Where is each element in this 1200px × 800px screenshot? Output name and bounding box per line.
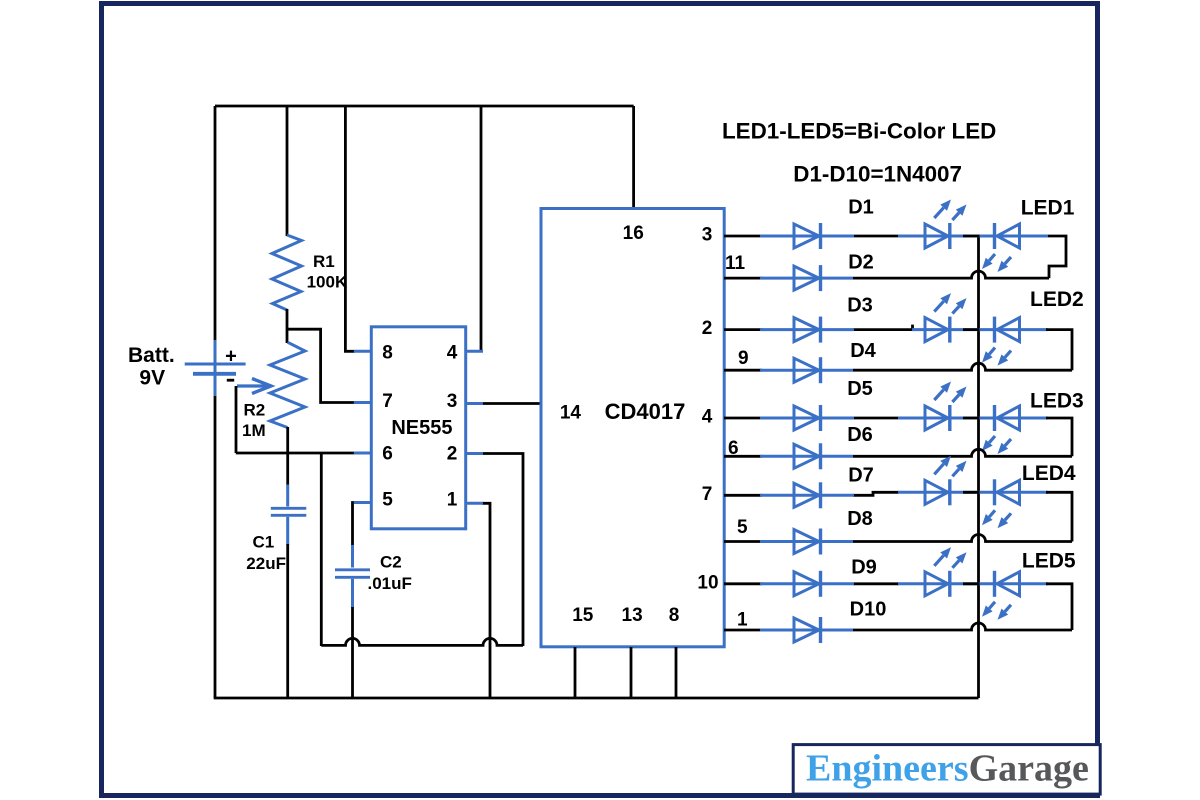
- diode D6: [794, 443, 821, 469]
- wire R2 bottom to C1: [286, 427, 289, 485]
- label R2 1M: [242, 401, 266, 441]
- svg-text:7: 7: [382, 391, 393, 412]
- svg-text:LED5: LED5: [1022, 550, 1076, 573]
- wire supply to CD4017 pin16: [632, 106, 635, 209]
- wire LED5 return loop: [1046, 584, 1072, 630]
- svg-text:22uF: 22uF: [246, 554, 286, 573]
- wire row pin 4 black segment at common line: [963, 417, 980, 420]
- wire row pin 11 with hop: [853, 271, 1049, 278]
- EngineersGarage logo: [793, 745, 1100, 795]
- svg-text:2: 2: [447, 444, 458, 465]
- wire CD4017 pin13 to ground: [630, 647, 633, 698]
- svg-text:3: 3: [447, 391, 458, 412]
- svg-text:D9: D9: [851, 557, 877, 579]
- svg-text:7: 7: [702, 484, 713, 505]
- wire node R1-R2 to NE555 pin7: [287, 329, 355, 402]
- NE555 pin stubs: [354, 351, 483, 503]
- wire NE555 pin3 to CD4017 pin14: [482, 402, 541, 405]
- svg-text:D1: D1: [848, 197, 874, 219]
- svg-text:D6: D6: [847, 424, 873, 446]
- wire row pin 4 blue segments: [760, 417, 1048, 420]
- label C1 22uF: [246, 533, 286, 574]
- svg-text:CD4017: CD4017: [605, 399, 686, 424]
- R2 wiper arrow: [237, 379, 271, 394]
- wire LED4 return loop: [1046, 492, 1072, 541]
- wire R2 wiper to pin6 row: [235, 386, 238, 453]
- svg-text:R1: R1: [313, 252, 335, 271]
- LED2 emission arrows up-right: [934, 293, 966, 314]
- wire R1 top drop: [286, 106, 289, 236]
- svg-text:D10: D10: [850, 599, 887, 621]
- wire row pin 11 blue segment: [760, 277, 853, 280]
- svg-text:EngineersGarage: EngineersGarage: [806, 748, 1089, 790]
- svg-text:LED3: LED3: [1030, 390, 1084, 413]
- bi-color LED LED3 forward element: [925, 405, 950, 431]
- svg-text:13: 13: [622, 605, 643, 626]
- svg-text:+: +: [225, 346, 237, 368]
- diode D1: [794, 223, 821, 249]
- LED3 emission arrows up-right: [934, 382, 966, 403]
- wire LED3 return loop: [1046, 418, 1072, 456]
- wire row pin 10 blue segments: [760, 582, 1048, 585]
- diode D8: [794, 529, 821, 555]
- wire row pin 7 blue segments: [760, 492, 1048, 495]
- svg-text:9V: 9V: [139, 366, 165, 389]
- LED2 emission arrows down-left: [982, 348, 1011, 366]
- diode D7: [794, 482, 821, 508]
- wire row pin 7 black segment at common line: [963, 491, 980, 494]
- wire pin6-pin2 link with hops: [321, 638, 523, 645]
- wire row pin 1 black stub: [724, 629, 762, 632]
- wire row pin 10 black segment at common line: [963, 582, 980, 585]
- bi-color LED LED5 forward element: [925, 571, 950, 597]
- wire row pin 3 black segments: [724, 235, 899, 238]
- svg-text:R2: R2: [244, 401, 266, 420]
- diode D3: [794, 317, 821, 343]
- wire R1 to R2 link: [286, 309, 289, 343]
- capacitor C1: [271, 485, 307, 546]
- svg-text:1M: 1M: [242, 421, 266, 440]
- wire row pin 4 black segments: [724, 417, 899, 420]
- svg-text:D8: D8: [847, 508, 873, 530]
- svg-text:LED1: LED1: [1021, 196, 1075, 219]
- wire CD4017 pin15 to ground: [574, 647, 577, 698]
- wire supply to NE555 pin4: [480, 106, 483, 351]
- label R1 100K: [307, 252, 348, 292]
- wire NE555 pin1 to ground: [482, 503, 490, 698]
- LED3 emission arrows down-left: [982, 436, 1011, 454]
- resistor R1: [272, 235, 302, 310]
- svg-text:D4: D4: [850, 340, 876, 362]
- diode D4: [794, 357, 821, 383]
- wire row pin 5 blue segment: [760, 540, 853, 543]
- wire NE555 pin5 corner: [353, 503, 355, 547]
- svg-text:C2: C2: [380, 553, 402, 572]
- svg-text:D3: D3: [847, 295, 873, 317]
- potentiometer R2: [270, 342, 305, 427]
- LED1 emission arrows down-left: [982, 254, 1011, 272]
- wire LED1 return loop: [1048, 236, 1066, 278]
- wire row pin 3 blue segments: [760, 235, 1048, 238]
- LED4 emission arrows down-left: [982, 510, 1011, 528]
- capacitor C2: [335, 545, 370, 608]
- bi-color LED LED2 forward element: [925, 317, 950, 343]
- wire row pin 1 blue segment: [760, 629, 853, 632]
- wire row pin 5 black stub: [724, 540, 762, 543]
- wire bottom ground rail: [214, 697, 979, 700]
- svg-text:5: 5: [737, 517, 748, 538]
- CD4017 bottom pin numbers 15 13 8: [572, 605, 679, 626]
- wire row pin 2 blue segments: [760, 328, 1048, 331]
- wire CD4017 pin8 to ground: [675, 647, 678, 698]
- diode D9: [794, 571, 821, 597]
- svg-text:14: 14: [560, 403, 582, 424]
- wire row pin 10 black segments: [724, 582, 899, 585]
- wire row pin 6 with hop: [853, 449, 1072, 456]
- wire row pin 9 black stub: [724, 369, 762, 372]
- label battery minus: [227, 379, 234, 382]
- wire battery positive drop: [214, 106, 217, 341]
- wire row pin 1 with hop: [853, 623, 1072, 630]
- svg-text:C1: C1: [253, 533, 275, 552]
- bi-color LED LED3 reverse element: [995, 405, 1020, 431]
- svg-text:10: 10: [697, 572, 718, 593]
- battery BT1 9V: [185, 340, 246, 397]
- op-amp timer U1 NE555 body: [371, 327, 465, 529]
- wire NE555 pin2 loop: [482, 454, 523, 647]
- label C2 .01uF: [368, 553, 412, 594]
- bi-color LED LED5 reverse element: [995, 571, 1020, 597]
- bi-color LED LED1 reverse element: [995, 223, 1020, 249]
- svg-text:5: 5: [382, 490, 393, 511]
- svg-text:1: 1: [737, 610, 748, 631]
- svg-text:1: 1: [447, 490, 458, 511]
- wire row pin 11 black stub: [724, 277, 762, 280]
- wire C2 to ground rail: [351, 607, 354, 698]
- wire row pin 9 with hop: [853, 363, 1072, 370]
- diode D2: [794, 265, 821, 291]
- LED5 emission arrows up-right: [934, 547, 966, 568]
- wire row pin 2 black segment at common line: [963, 328, 980, 331]
- wire row pin 6 blue segment: [760, 455, 853, 458]
- svg-text:LED2: LED2: [1030, 288, 1084, 311]
- svg-text:8: 8: [669, 605, 680, 626]
- diode D10: [794, 617, 821, 643]
- svg-text:D1-D10=1N4007: D1-D10=1N4007: [793, 162, 962, 187]
- svg-text:4: 4: [702, 407, 713, 428]
- svg-text:.01uF: .01uF: [368, 574, 412, 593]
- svg-text:8: 8: [382, 343, 393, 364]
- svg-text:16: 16: [623, 223, 644, 244]
- svg-text:LED1-LED5=Bi-Color LED: LED1-LED5=Bi-Color LED: [722, 118, 996, 143]
- bi-color LED LED4 reverse element: [995, 479, 1020, 505]
- wire row pin 9 blue segment: [760, 369, 853, 372]
- LED1 emission arrows up-right: [934, 200, 966, 221]
- LED4 emission arrows up-right: [934, 456, 966, 477]
- bi-color LED LED4 forward element: [925, 479, 950, 505]
- svg-text:Batt.: Batt.: [128, 344, 175, 367]
- label Batt. 9V: [128, 344, 175, 390]
- wire row pin 7 black segments: [724, 492, 899, 495]
- svg-text:LED4: LED4: [1022, 462, 1076, 485]
- wire pin6 row: [236, 452, 355, 455]
- wire LED2 return loop: [1046, 330, 1072, 371]
- svg-text:2: 2: [702, 318, 713, 339]
- svg-text:4: 4: [447, 343, 458, 364]
- diode D5: [794, 405, 821, 431]
- wire row pin 6 black stub: [724, 455, 762, 458]
- wire C1 to ground rail: [286, 544, 289, 698]
- wire row pin 2 black segments: [724, 325, 913, 331]
- svg-text:9: 9: [738, 348, 749, 369]
- svg-text:3: 3: [702, 225, 713, 246]
- svg-text:NE555: NE555: [391, 417, 452, 439]
- counter U2 CD4017 body: [541, 209, 724, 647]
- bi-color LED LED2 reverse element: [995, 317, 1020, 343]
- NE555 pin numbers: [382, 343, 458, 511]
- svg-text:D5: D5: [847, 378, 873, 400]
- wire battery negative drop: [214, 396, 217, 698]
- svg-text:100K: 100K: [307, 273, 348, 292]
- common cathode line of bi-color LEDs: [977, 236, 980, 698]
- bi-color LED LED1 forward element: [925, 223, 950, 249]
- wire row pin 3 black segment at common line: [963, 235, 980, 238]
- wire pin6 branch down: [320, 453, 323, 646]
- wire supply to NE555 pin8: [345, 106, 354, 351]
- svg-text:6: 6: [382, 444, 393, 465]
- wire top supply rail: [215, 105, 634, 108]
- wire row pin 5 with hop: [853, 535, 1072, 542]
- svg-text:11: 11: [725, 253, 746, 274]
- svg-text:D7: D7: [848, 465, 874, 487]
- LED5 emission arrows down-left: [982, 602, 1011, 620]
- svg-text:D2: D2: [848, 252, 874, 274]
- svg-text:15: 15: [572, 605, 594, 626]
